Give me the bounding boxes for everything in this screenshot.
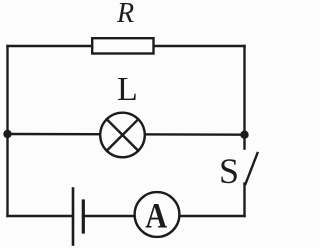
wire middle horizontal [8, 133, 245, 136]
switch S blade [246, 153, 258, 184]
ammeter A circle [135, 192, 180, 237]
lamp L cross line 2 [107, 119, 139, 151]
node right junction [240, 131, 248, 139]
wire left vertical [6, 46, 8, 216]
lamp L cross line 1 [107, 119, 139, 151]
battery short plate [82, 201, 85, 232]
svg-text:S: S [219, 151, 239, 191]
svg-text:L: L [117, 71, 138, 108]
wire bottom left segment [8, 215, 74, 217]
resistor R body [92, 38, 153, 53]
lamp L circle [100, 113, 145, 158]
svg-text:A: A [145, 196, 167, 236]
svg-text:R: R [116, 0, 134, 29]
wire right vertical lower [243, 184, 245, 217]
wire top horizontal [8, 45, 245, 47]
wire right vertical upper [243, 46, 245, 149]
wire bottom right segment [83, 215, 245, 217]
node left junction [3, 130, 11, 138]
battery long plate [72, 189, 75, 245]
